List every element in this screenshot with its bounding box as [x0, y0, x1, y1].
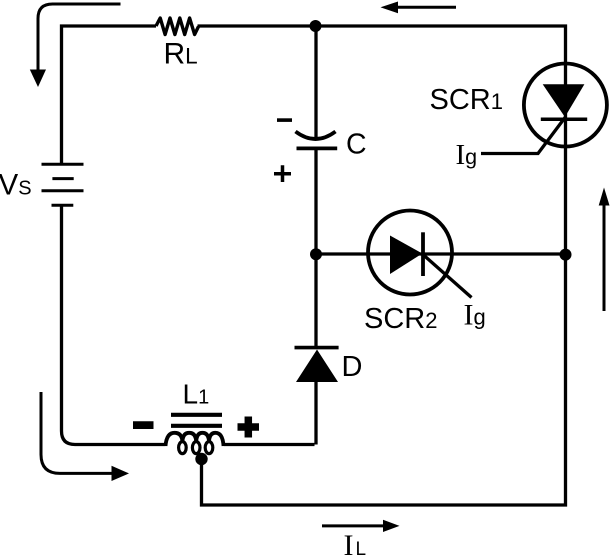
svg-text:D: D [342, 351, 363, 383]
svg-text:C: C [346, 128, 367, 160]
svg-text:SCR2: SCR2 [364, 303, 437, 335]
svg-text:SCR1: SCR1 [430, 84, 503, 116]
